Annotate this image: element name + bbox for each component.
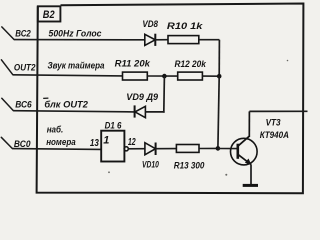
junction B dot — [217, 74, 222, 79]
diode VD9 — [135, 105, 146, 117]
svg-text:VD9 Д9: VD9 Д9 — [126, 91, 159, 102]
wire riser VD9 up to junction A — [163, 76, 166, 113]
wire collector to frame — [249, 110, 307, 112]
svg-text:ВС2: ВС2 — [15, 29, 31, 40]
wire R10 to corner — [199, 39, 220, 41]
node BC0 connector — [1, 137, 12, 148]
inversion bubble pin 12 — [124, 147, 128, 151]
diode VD10 — [145, 143, 156, 156]
wire VD8 to R10 — [155, 39, 168, 41]
base node dot — [216, 146, 221, 151]
svg-text:R12 20k: R12 20k — [175, 58, 207, 69]
svg-text:D1 6: D1 6 — [105, 119, 122, 130]
svg-text:VD8: VD8 — [142, 18, 158, 29]
svg-text:R11 20k: R11 20k — [115, 57, 151, 68]
resistor R12 — [178, 72, 203, 80]
wire row3 BC6 to VD9 — [13, 111, 134, 112]
svg-text:наб.: наб. — [47, 125, 64, 136]
wire bubble to VD10 — [128, 148, 145, 150]
wire riser junction B down to base node — [218, 76, 219, 148]
svg-text:OUT2: OUT2 — [14, 62, 36, 73]
svg-text:КТ940А: КТ940А — [260, 129, 289, 140]
node BC2 connector — [2, 27, 14, 40]
svg-text:R13 300: R13 300 — [174, 160, 205, 171]
svg-text:номера: номера — [46, 137, 76, 148]
wire base node to VT3 base — [218, 148, 238, 150]
node BC6 connector — [2, 98, 14, 110]
svg-text:12: 12 — [128, 137, 136, 148]
svg-text:Звук таймера: Звук таймера — [48, 60, 105, 71]
transistor VT3 — [231, 111, 258, 165]
wire VD10 to R13 — [156, 148, 177, 150]
svg-text:VD10: VD10 — [142, 158, 159, 169]
svg-text:500Hz Голос: 500Hz Голос — [49, 27, 103, 38]
resistor R13 — [176, 145, 199, 153]
wire R13 to base node — [199, 147, 218, 149]
wire R12 to junction B — [202, 75, 219, 77]
resistor R11 — [123, 72, 148, 80]
svg-text:ВС6: ВС6 — [15, 100, 32, 111]
svg-text:13: 13 — [90, 138, 99, 149]
wire emitter down — [250, 164, 252, 185]
block B2 box — [38, 6, 61, 21]
specks — [108, 60, 288, 176]
ground — [243, 184, 258, 187]
resistor R10 — [168, 36, 199, 44]
wire row4 BC0 to D1 pin13 — [12, 148, 101, 151]
diode VD8 — [145, 34, 156, 46]
wire R11 to junction A — [147, 75, 177, 77]
junction A dot — [162, 74, 167, 79]
svg-text:R10 1k: R10 1k — [167, 20, 203, 31]
wire row2 OUT2 to R11 — [13, 75, 123, 76]
node OUT2 connector — [1, 60, 12, 75]
wire corner down to R12 node — [218, 40, 220, 76]
overbar on блк — [43, 97, 48, 99]
svg-text:блк OUT2: блк OUT2 — [44, 98, 88, 109]
svg-text:VT3: VT3 — [266, 116, 282, 127]
svg-text:В2: В2 — [43, 9, 55, 21]
wire VD9 to riser corner — [145, 111, 164, 113]
outer frame — [37, 4, 304, 194]
svg-text:1: 1 — [103, 135, 109, 147]
gate D1 box — [101, 131, 124, 162]
wire row1 BC2 to VD8 — [14, 39, 145, 41]
